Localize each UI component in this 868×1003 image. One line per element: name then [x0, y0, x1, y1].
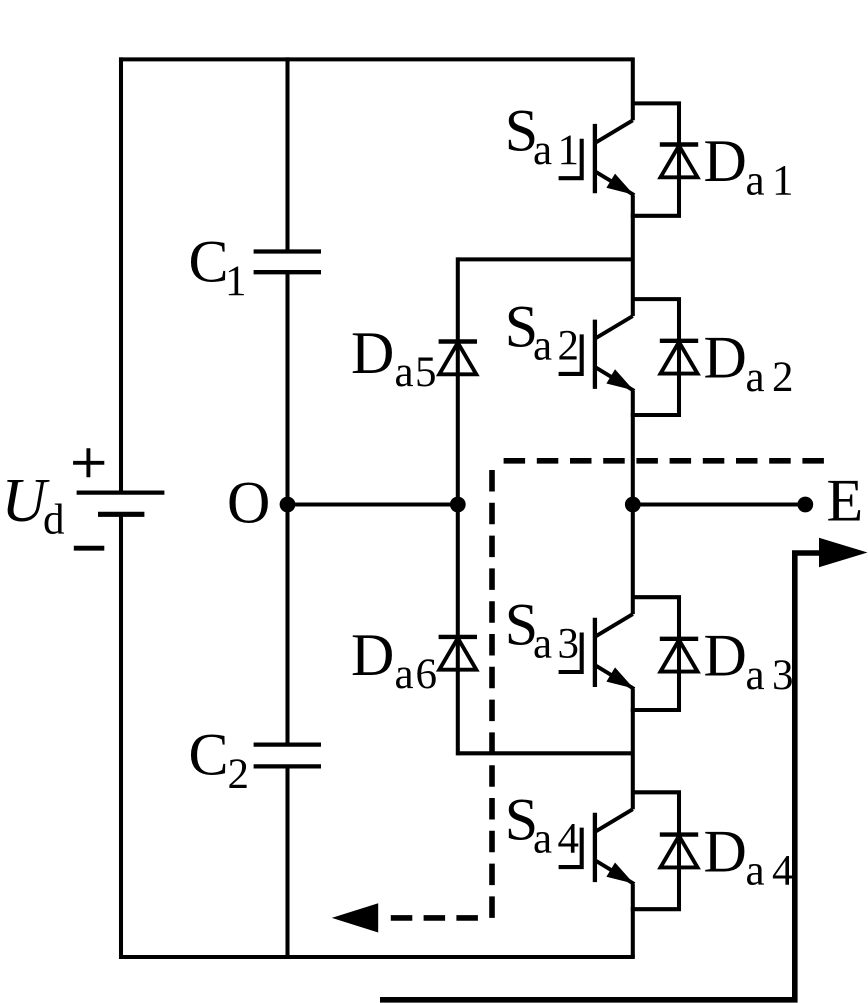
svg-text:1: 1 — [772, 158, 794, 205]
svg-text:D: D — [351, 320, 394, 386]
diode D_a3 — [660, 637, 698, 641]
svg-text:a: a — [746, 158, 765, 205]
svg-text:D: D — [704, 623, 747, 689]
svg-text:2: 2 — [772, 354, 794, 401]
wire diode column D_a3 — [677, 597, 681, 710]
svg-text:a: a — [533, 323, 552, 370]
svg-text:O: O — [227, 469, 270, 535]
svg-text:D: D — [704, 128, 747, 194]
svg-text:D: D — [351, 622, 394, 688]
transistor S_a2 body bar — [593, 320, 597, 389]
svg-text:E: E — [827, 467, 864, 533]
transistor S_a1 emitter arrowhead — [606, 174, 633, 195]
output arrow path — [380, 553, 820, 1000]
wire emitter branch S_a4 — [631, 907, 681, 911]
svg-text:a: a — [533, 127, 552, 174]
diode D_a2 — [660, 339, 698, 343]
wire capacitor rail upper — [285, 57, 289, 251]
svg-text:D: D — [704, 325, 747, 391]
svg-text:a: a — [746, 354, 765, 401]
svg-text:1: 1 — [225, 258, 247, 305]
svg-text:1: 1 — [558, 127, 580, 174]
diode D_a4 — [660, 832, 698, 836]
wire main rail seg4 — [631, 884, 635, 957]
transistor S_a1 gate — [559, 139, 582, 179]
node O junction — [280, 497, 296, 513]
wire clamp rail — [456, 257, 460, 755]
wire bottom bus — [119, 955, 635, 959]
wire main rail seg2 — [631, 391, 635, 614]
transistor S_a1 body bar — [593, 124, 597, 193]
wire collector branch S_a4 — [633, 790, 681, 794]
svg-text:C: C — [189, 229, 229, 295]
battery negative plate — [98, 512, 144, 517]
transistor S_a3 emitter diagonal — [596, 666, 634, 689]
dashed path arrowhead — [332, 903, 378, 932]
dashed path vertical — [489, 461, 495, 918]
svg-text:C: C — [189, 722, 229, 788]
svg-text:4: 4 — [772, 848, 794, 895]
transistor S_a3 collector diagonal — [596, 614, 633, 636]
battery plus sign — [73, 448, 104, 477]
wire top bus — [119, 57, 633, 61]
diode D_a5 — [439, 339, 477, 343]
svg-text:a: a — [533, 621, 552, 668]
transistor S_a1 collector diagonal — [596, 120, 633, 142]
svg-text:a: a — [533, 816, 552, 863]
wire collector branch S_a1 — [633, 101, 681, 105]
battery minus sign — [74, 546, 105, 551]
svg-text:a: a — [395, 349, 414, 396]
wire O to clamp rail — [288, 502, 458, 506]
diode D_a6 — [439, 635, 477, 639]
wire clamp top link — [458, 257, 633, 261]
svg-text:d: d — [43, 497, 65, 544]
wire emitter branch S_a2 — [631, 413, 681, 417]
wire collector branch S_a3 — [633, 595, 681, 599]
transistor S_a1 emitter diagonal — [596, 172, 634, 195]
svg-text:2: 2 — [228, 751, 250, 798]
dashed path horizontal bottom — [382, 915, 478, 921]
transistor S_a4 collector diagonal — [596, 809, 633, 831]
node clamp junction — [450, 497, 466, 513]
wire collector branch S_a2 — [633, 297, 681, 301]
dashed path horizontal top — [492, 458, 824, 464]
battery positive plate — [77, 490, 165, 494]
node E terminal — [797, 497, 813, 513]
svg-text:5: 5 — [415, 349, 437, 396]
svg-text:6: 6 — [416, 651, 438, 698]
svg-text:a: a — [746, 848, 765, 895]
transistor S_a2 collector diagonal — [596, 316, 633, 338]
wire diode column D_a1 — [677, 103, 681, 215]
wire left rail lower — [119, 514, 123, 959]
svg-text:2: 2 — [558, 323, 580, 370]
wire main rail seg3 — [631, 689, 635, 809]
transistor S_a4 body bar — [593, 813, 597, 882]
wire main rail seg0 — [631, 57, 635, 120]
svg-text:a: a — [746, 652, 765, 699]
svg-text:a: a — [395, 651, 414, 698]
transistor S_a2 emitter arrowhead — [606, 369, 633, 390]
transistor S_a4 gate — [559, 828, 582, 868]
svg-text:D: D — [704, 818, 747, 884]
wire diode column D_a2 — [677, 299, 681, 415]
wire main rail seg1 — [631, 195, 635, 316]
wire left rail upper — [119, 57, 123, 492]
transistor S_a4 emitter diagonal — [596, 861, 634, 884]
svg-text:3: 3 — [558, 621, 580, 668]
transistor S_a2 emitter diagonal — [596, 368, 634, 391]
wire diode column D_a4 — [677, 792, 681, 909]
transistor S_a3 emitter arrowhead — [606, 667, 633, 688]
transistor S_a3 body bar — [593, 618, 597, 687]
transistor S_a4 emitter arrowhead — [606, 862, 633, 883]
wire emitter branch S_a1 — [631, 214, 681, 218]
svg-text:4: 4 — [558, 816, 580, 863]
output arrowhead — [819, 538, 868, 567]
capacitor C1 plates — [254, 249, 321, 253]
wire midpoint to E — [633, 502, 806, 506]
transistor S_a2 gate — [559, 334, 582, 374]
node midpoint junction — [625, 497, 641, 513]
wire clamp bottom link — [458, 751, 633, 755]
wire emitter branch S_a3 — [631, 708, 681, 712]
diode D_a1 — [660, 142, 698, 146]
svg-text:3: 3 — [772, 652, 794, 699]
capacitor C2 plates — [254, 742, 321, 746]
wire capacitor rail middle — [285, 272, 289, 744]
transistor S_a3 gate — [559, 633, 582, 673]
wire capacitor rail lower — [285, 766, 289, 957]
